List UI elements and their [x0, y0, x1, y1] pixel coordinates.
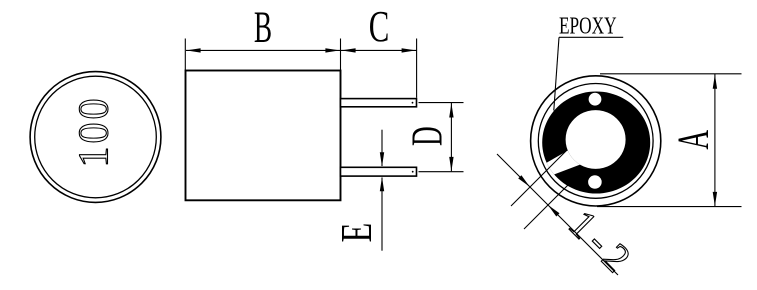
dimension B line — [186, 49, 340, 51]
dimension B extension line left — [184, 39, 186, 71]
dimension E arrow down — [380, 152, 384, 166]
front view inner circle — [35, 76, 157, 198]
bottom pin dot — [412, 171, 414, 173]
dimension 1-2 extension line inner — [511, 151, 566, 206]
dimension A arrow top — [713, 74, 717, 88]
dimension C extension line right — [416, 39, 418, 98]
svg-text:A: A — [668, 130, 717, 150]
svg-text:EPOXY: EPOXY — [559, 12, 617, 40]
epoxy leader diagonal — [554, 37, 559, 110]
dimension A extension line bottom — [597, 206, 742, 208]
dimension C arrow left — [341, 48, 355, 52]
body rectangle — [186, 71, 341, 201]
top pin dot — [412, 102, 414, 104]
dimension C line — [341, 49, 417, 51]
dimension 1-2 arrow upper — [518, 175, 530, 187]
svg-text:E: E — [333, 223, 381, 243]
dimension E arrow up — [380, 177, 384, 191]
dimension A arrow bottom — [713, 192, 717, 206]
back view outer circle — [531, 76, 661, 206]
back view epoxy ring (black annulus with holes) — [542, 92, 650, 194]
dimension B extension line right — [340, 39, 342, 71]
svg-text:D: D — [402, 126, 451, 146]
dimension D extension line bottom — [419, 171, 464, 173]
dimension 1-2 line — [497, 154, 618, 275]
dimension D extension line top — [419, 102, 464, 104]
epoxy leader underline — [559, 36, 623, 38]
back view second circle — [538, 83, 653, 198]
svg-text:B: B — [254, 2, 272, 51]
dimension A extension line top — [600, 73, 742, 75]
dimension D arrow bottom — [449, 157, 453, 171]
dimension 1-2 extension line outer — [524, 181, 572, 229]
svg-text:100: 100 — [72, 96, 118, 168]
dimension 1-2 arrow lower — [548, 205, 560, 217]
dimension B arrow left — [186, 48, 200, 52]
dimension E upper line — [381, 130, 383, 166]
front view outer circle — [30, 72, 161, 203]
dimension E lower line — [381, 178, 383, 251]
top pin — [341, 99, 417, 107]
white corridor across ring for 1-2 dimension — [541, 144, 583, 177]
dimension D line — [450, 103, 452, 171]
svg-text:C: C — [369, 3, 390, 52]
dimension C arrow right — [402, 48, 416, 52]
bottom pin — [341, 167, 417, 176]
dimension A line — [714, 74, 716, 206]
dimension D arrow top — [449, 103, 453, 117]
dimension B arrow right — [325, 48, 339, 52]
